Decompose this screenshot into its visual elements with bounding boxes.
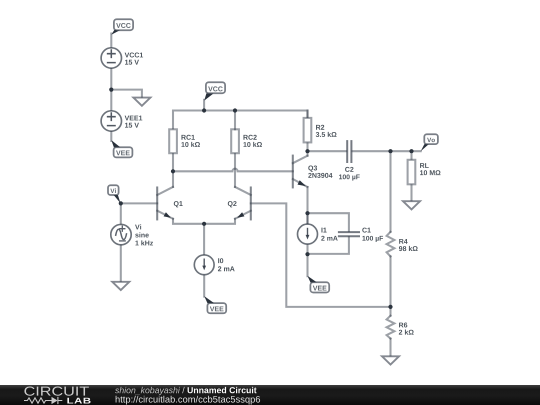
label 100 µF	[339, 174, 360, 180]
node junction shared emitters / I0	[202, 222, 206, 226]
capacitor C1 branch wires	[308, 213, 349, 231]
label RC2	[243, 135, 256, 140]
label 100 µF	[362, 236, 383, 242]
label VEE	[313, 286, 327, 291]
wire VEE1 - to VEE flag	[110, 132, 112, 141]
label VEE1	[125, 116, 143, 121]
label 15 V	[125, 123, 139, 128]
label 2 kΩ	[399, 330, 414, 335]
current source I0	[194, 224, 214, 275]
label Vo	[427, 138, 435, 142]
wire I0 bottom	[203, 276, 205, 297]
node junction Q3 emitter / I1 / C1	[305, 211, 309, 215]
node junction I1 bottom / C1 bottom	[305, 252, 309, 256]
wire VCC1 - to node A / VEE1 +	[110, 69, 112, 110]
net flag VCC (collector rail)	[204, 82, 225, 100]
ground (R6)	[382, 356, 399, 364]
label VCC1	[125, 53, 143, 58]
capacitor C1	[339, 232, 359, 236]
wire Q3 collector	[306, 151, 308, 156]
label 15 V	[125, 60, 139, 65]
label RC1	[181, 135, 194, 140]
label I0	[218, 258, 223, 263]
transistor Q1	[157, 187, 173, 220]
wire RC2 to Q2 collector	[234, 154, 236, 187]
label 2 mA	[321, 236, 337, 241]
wire node A to ground	[111, 90, 142, 97]
voltage source VCC1	[101, 48, 121, 68]
label VEE	[116, 150, 130, 155]
logo diode glyph	[52, 397, 58, 404]
label sine	[135, 232, 149, 237]
ground (RL)	[403, 201, 420, 209]
wire feedback: Q2 base to R4/R6 divider	[251, 203, 391, 307]
label C2	[345, 167, 353, 172]
node junction Q3 collector / R2 / output	[305, 149, 309, 153]
label Vi	[110, 188, 115, 193]
node junction RC1 bottom / Q3 base feed	[171, 169, 175, 173]
transistor Q3	[293, 156, 308, 188]
wire Vi node to Q1 base	[121, 202, 157, 204]
label 1 kHz	[135, 240, 153, 245]
footer bar	[0, 385, 540, 405]
wire C2 to Vo	[352, 150, 420, 152]
label 2 mA	[218, 266, 235, 271]
net flag VEE (source section)	[111, 140, 132, 157]
node junction R4 tap	[388, 149, 392, 153]
resistor R6	[387, 307, 395, 355]
node A junction (VCC1/VEE1/gnd)	[109, 88, 113, 92]
label 10 MΩ	[420, 170, 440, 175]
resistor RC1	[169, 129, 177, 153]
output rail wire	[308, 150, 347, 152]
junction VCC tap on rail	[202, 108, 206, 112]
wire I1 bottom	[306, 245, 308, 276]
label 10 kΩ	[243, 142, 262, 147]
label VCC	[116, 23, 131, 28]
label 3.5 kΩ	[316, 132, 337, 137]
resistor RL	[408, 151, 416, 200]
label Q1	[174, 201, 183, 207]
wire RC1 to Q1 collector	[172, 154, 174, 187]
flag VEE (I0)	[204, 296, 226, 313]
logo wordmark LAB	[67, 398, 90, 404]
net flag Vi	[108, 185, 121, 203]
ground (supply midpoint)	[133, 98, 150, 106]
wire Q2 emitter	[204, 219, 235, 224]
ground (Vi source)	[112, 282, 129, 290]
resistor R4	[387, 151, 395, 307]
label 98 kΩ	[399, 246, 418, 251]
node junction RL tap	[409, 149, 413, 153]
label Vi	[135, 224, 141, 229]
wire Q1 emitter	[173, 219, 204, 224]
label R4	[399, 239, 407, 244]
footer author / circuit title	[115, 387, 180, 395]
wire Vi to ground	[120, 246, 122, 281]
wire RC2 top	[234, 111, 236, 130]
logo resistor glyph	[24, 397, 62, 404]
label VEE	[210, 306, 224, 311]
net flag VCC (source section)	[111, 19, 133, 35]
label 2N3904	[308, 173, 332, 178]
transistor Q2	[235, 187, 251, 220]
label C1	[362, 228, 370, 233]
label Q2	[228, 201, 237, 207]
current source I1	[298, 213, 318, 244]
flag VEE (I1)	[307, 276, 329, 293]
junction RC2 top on rail	[233, 108, 237, 112]
label R2	[316, 125, 324, 130]
wire VCC flag to VCC1 +	[110, 34, 112, 47]
resistor RC2	[231, 129, 239, 153]
footer circuit url	[116, 396, 260, 405]
label 10 kΩ	[181, 142, 200, 147]
capacitor C2	[347, 141, 351, 162]
wire Q3 emitter down	[306, 187, 308, 224]
label I1	[321, 228, 326, 233]
source Vi sine	[111, 224, 131, 244]
voltage source VEE1	[101, 111, 121, 131]
label VCC	[208, 86, 223, 91]
logo wordmark CIRCUIT	[24, 387, 88, 396]
label R6	[399, 323, 407, 328]
wire VCC rail (RC1/RC2/R2 tops)	[173, 111, 308, 130]
node junction R4/R6/feedback	[388, 305, 392, 309]
resistor R2	[304, 111, 312, 152]
wire VCC flag tap to rail	[203, 100, 205, 111]
wire Q1 collector node to Q3 base (hop over RC2 wire)	[173, 169, 293, 172]
label RL	[420, 163, 429, 168]
net flag Vo	[421, 134, 438, 151]
label Q3	[308, 166, 317, 172]
